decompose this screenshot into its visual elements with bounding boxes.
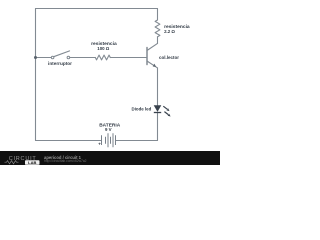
svg-text:LAB: LAB	[28, 160, 36, 165]
svg-text:+: +	[98, 142, 101, 147]
svg-text:col.lector: col.lector	[159, 55, 179, 60]
svg-text:interruptor: interruptor	[48, 61, 72, 66]
svg-text:9 V: 9 V	[105, 127, 112, 132]
svg-text:100 Ω: 100 Ω	[97, 46, 110, 51]
svg-text:2.2 Ω: 2.2 Ω	[164, 29, 175, 34]
svg-text:Diode led: Diode led	[132, 106, 152, 111]
svg-text:http://circuitlab.com/c62w7a2: http://circuitlab.com/c62w7a2	[44, 159, 87, 163]
